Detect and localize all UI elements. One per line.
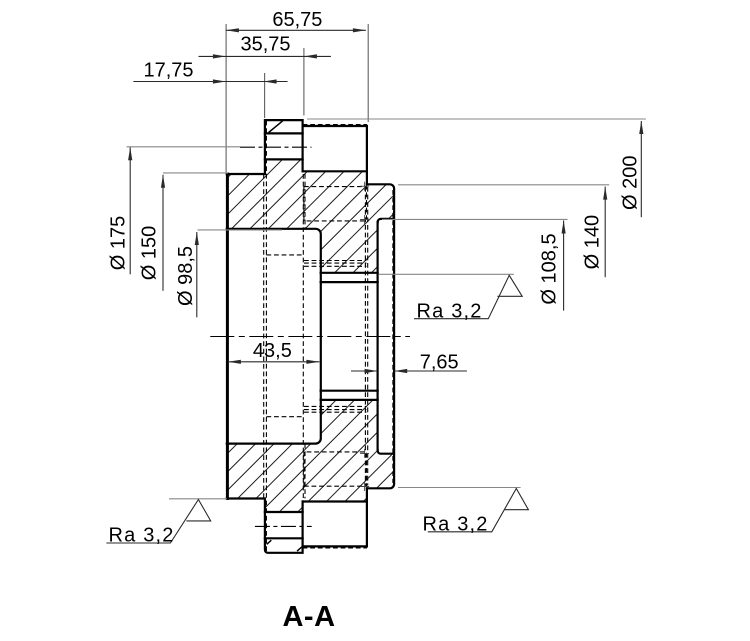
centerlines xyxy=(210,147,410,526)
leader dia140 xyxy=(398,184,609,186)
hidden groove rect upper xyxy=(304,187,367,221)
svg-text:7,65: 7,65 xyxy=(420,351,459,373)
counterbore top edge xyxy=(303,125,367,127)
hidden thread line bottom 1 xyxy=(304,405,366,407)
svg-text:Ø 200: Ø 200 xyxy=(619,156,641,210)
hidden thread line top 1 xyxy=(304,260,366,262)
fillet centermark crosses xyxy=(360,182,369,491)
hidden thread line bottom 2 xyxy=(304,409,366,411)
svg-text:Ø 98,5: Ø 98,5 xyxy=(175,246,197,306)
ext line 35.75 right xyxy=(303,48,305,115)
centermark cross rim bottom outer xyxy=(360,482,369,491)
top bolt hole thread chamfer xyxy=(269,121,283,133)
hidden thread line top 3 xyxy=(304,265,366,267)
flange right face upper xyxy=(366,126,368,184)
dimension 7,65 xyxy=(351,369,467,373)
leader dia200 xyxy=(307,118,646,120)
main axis centerline xyxy=(210,336,410,338)
flange right face lower xyxy=(366,488,368,546)
bottom counterbore top edge xyxy=(303,500,367,502)
dimension dia200 xyxy=(639,121,643,217)
rim inner lip top xyxy=(378,219,394,222)
bottom bolt hole chamfer b xyxy=(297,547,302,552)
hidden counterbore overlay top xyxy=(303,124,367,126)
centermark cross rim bottom inner xyxy=(360,449,369,458)
hidden keyway right edge xyxy=(302,174,304,498)
svg-text:17,75: 17,75 xyxy=(143,59,193,81)
svg-text:Ø 150: Ø 150 xyxy=(139,226,161,280)
hidden line right of boss xyxy=(304,174,306,498)
dimension 65,75 xyxy=(226,28,366,32)
hatch lower section band xyxy=(227,400,394,512)
recess floor face xyxy=(377,222,379,450)
inner hole top edge xyxy=(321,272,378,274)
top bolt hole centerline xyxy=(240,146,312,148)
svg-text:A-A: A-A xyxy=(282,601,335,633)
left face full height xyxy=(226,174,229,499)
bolt hole upper line xyxy=(265,132,303,134)
inner hole bottom chamfer edge xyxy=(321,390,378,392)
ext line 17.75 right xyxy=(264,73,266,118)
bottom bolt hole upper line xyxy=(265,511,303,513)
ext line 65.75 right xyxy=(367,24,369,122)
dimension 43,5 xyxy=(228,360,320,364)
hidden line bolt hole left a xyxy=(263,174,265,498)
inner hole bottom edge xyxy=(321,399,378,401)
leader dia98.5 xyxy=(198,229,283,231)
hidden face line a xyxy=(364,187,366,486)
svg-text:Ra 3,2: Ra 3,2 xyxy=(423,513,489,535)
bolt boss bottom outline xyxy=(265,499,303,553)
bore outline with step face xyxy=(227,229,321,444)
rim inner lip bottom xyxy=(378,450,394,453)
rim outer profile xyxy=(367,184,394,488)
outer cylinder top surface line xyxy=(227,173,265,175)
svg-text:Ra 3,2: Ra 3,2 xyxy=(109,524,175,546)
leader Ra bottom right xyxy=(398,487,521,489)
leader Ra left xyxy=(169,498,227,500)
hidden thread line top 2 xyxy=(304,262,366,264)
bottom bolt hole lower line xyxy=(265,537,303,539)
leader dia150 xyxy=(163,172,228,174)
svg-text:Ø 140: Ø 140 xyxy=(581,215,603,269)
dimension dia98,5 xyxy=(195,232,199,317)
hidden counterbore overlay bottom xyxy=(303,547,367,549)
bolt boss top outline xyxy=(265,120,303,174)
bottom counterbore bottom edge xyxy=(303,545,367,547)
svg-text:43,5: 43,5 xyxy=(253,340,292,362)
hidden keyway bottom edge xyxy=(266,416,303,418)
hidden groove rect lower xyxy=(304,452,367,486)
svg-text:35,75: 35,75 xyxy=(240,34,290,56)
hidden thread line bottom 3 xyxy=(304,411,366,413)
surface finish symbol bottom left xyxy=(106,500,210,544)
bottom bolt hole centerline xyxy=(255,525,312,527)
hidden line bolt hole left b xyxy=(265,121,267,553)
hidden rim inner line xyxy=(392,190,394,483)
dimension dia175 xyxy=(128,147,132,274)
leader dia175 xyxy=(127,146,241,148)
counterbore bottom edge xyxy=(303,170,367,172)
bottom bolt hole chamfer a xyxy=(267,540,272,544)
dimension dia150 xyxy=(161,175,165,291)
dimension 17,75 xyxy=(133,79,287,83)
dimension 35,75 xyxy=(199,54,331,58)
leader Ra middle xyxy=(379,273,514,275)
ext line 65.75 left xyxy=(225,24,227,172)
svg-text:Ra 3,2: Ra 3,2 xyxy=(417,300,483,322)
centermark cross rim top inner xyxy=(360,215,369,224)
hidden lines xyxy=(264,121,393,553)
bolt hole lower line xyxy=(265,158,303,160)
hatch upper section band xyxy=(227,159,394,272)
leader dia108.5 xyxy=(382,218,568,220)
dimension dia108,5 xyxy=(562,221,566,311)
hidden keyway top edge xyxy=(266,254,303,256)
centermark cross rim top outer xyxy=(360,182,369,191)
svg-text:Ø 175: Ø 175 xyxy=(108,216,130,270)
svg-text:65,75: 65,75 xyxy=(272,9,322,31)
hidden face line b xyxy=(367,187,369,486)
dimension dia140 xyxy=(603,187,607,278)
extension and leader lines (gray) xyxy=(226,24,368,172)
outer cylinder bottom surface line xyxy=(227,497,265,499)
svg-text:Ø 108,5: Ø 108,5 xyxy=(539,233,561,304)
surface finish symbol middle right xyxy=(414,275,522,318)
surface finish symbol bottom right xyxy=(428,489,529,532)
inner hole top chamfer edge xyxy=(321,281,378,283)
